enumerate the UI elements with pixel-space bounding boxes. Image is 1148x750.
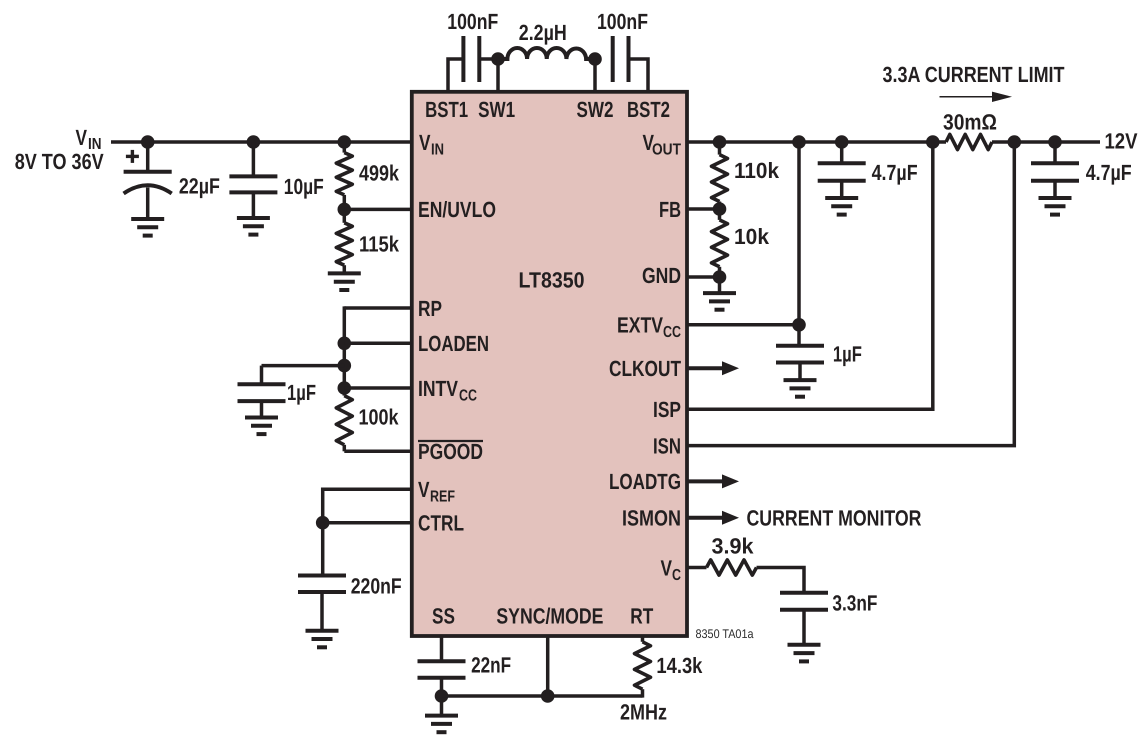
node bus-INTVCC junction xyxy=(338,381,352,395)
svg-text:SW2: SW2 xyxy=(577,97,614,122)
svg-text:10k: 10k xyxy=(734,224,770,249)
ground under C10 xyxy=(784,378,817,382)
inductor L1 2.2uH xyxy=(498,48,595,59)
node CTRL junction xyxy=(316,516,330,530)
node FB junction xyxy=(713,202,727,216)
node C9 junction xyxy=(1048,135,1062,149)
wire R5-R6 link xyxy=(718,202,722,220)
ground under C9 xyxy=(1039,196,1072,200)
wire SW2 pin stub xyxy=(593,59,597,92)
svg-text:2MHz: 2MHz xyxy=(620,700,667,725)
wire INTVCC pin xyxy=(344,386,412,390)
wire RP pin xyxy=(344,306,412,310)
svg-text:1µF: 1µF xyxy=(287,380,316,405)
resistor R2 115k xyxy=(336,223,352,265)
wire SW1 pin stub xyxy=(496,59,500,92)
svg-text:SS: SS xyxy=(432,604,455,629)
svg-text:ISN: ISN xyxy=(653,433,681,458)
svg-text:V: V xyxy=(419,130,431,155)
node SS-gnd junction xyxy=(435,689,449,703)
capacitor C8 4.7uF leads+plates xyxy=(840,142,844,163)
svg-text:3.3nF: 3.3nF xyxy=(832,591,877,616)
wire R5 top lead xyxy=(718,142,722,155)
current limit arrow xyxy=(940,96,995,98)
svg-text:V: V xyxy=(418,477,430,502)
wire LOADEN pin xyxy=(344,342,412,346)
resistor R3 100k xyxy=(336,396,352,445)
svg-text:22nF: 22nF xyxy=(471,652,511,677)
node SW1 junction xyxy=(491,52,505,66)
svg-text:2.2µH: 2.2µH xyxy=(519,20,567,45)
LOADTG output arrow xyxy=(687,479,723,483)
wire ISP pin+riser xyxy=(687,142,933,409)
svg-text:REF: REF xyxy=(430,489,455,506)
wire output rail VOUT right segment xyxy=(992,140,1100,144)
wire BST2 riser xyxy=(629,59,649,92)
wire C11 bottom lead xyxy=(802,610,806,645)
svg-text:LT8350: LT8350 xyxy=(519,268,585,293)
ISMON output arrow xyxy=(687,516,723,520)
svg-text:C: C xyxy=(672,567,681,584)
svg-text:10µF: 10µF xyxy=(284,174,324,199)
wire R4 bottom lead xyxy=(641,689,645,697)
capacitor C4 10uF plates xyxy=(229,174,277,178)
ground under C6 xyxy=(306,629,339,633)
capacitor C7 22nF plates xyxy=(418,659,466,663)
capacitor C11 3.3nF plates xyxy=(780,591,828,595)
svg-text:LOADEN: LOADEN xyxy=(418,331,489,356)
wire VREF pin xyxy=(323,489,412,522)
wire VC pin lead xyxy=(687,566,707,570)
svg-text:4.7µF: 4.7µF xyxy=(1086,160,1132,185)
node VOUT-EXTVCC riser junction xyxy=(792,135,806,149)
svg-text:OUT: OUT xyxy=(652,142,681,159)
capacitor C4 10uF leads xyxy=(252,142,256,176)
svg-text:14.3k: 14.3k xyxy=(656,653,703,678)
wire R3 to PGOOD xyxy=(343,445,347,452)
svg-text:1µF: 1µF xyxy=(833,342,862,367)
svg-text:BST2: BST2 xyxy=(627,97,670,122)
svg-text:499k: 499k xyxy=(359,161,400,186)
wire R1 top lead xyxy=(343,142,347,153)
svg-text:ISP: ISP xyxy=(653,397,681,422)
svg-text:CC: CC xyxy=(459,387,477,404)
svg-text:SW1: SW1 xyxy=(478,97,515,122)
svg-text:30mΩ: 30mΩ xyxy=(943,110,997,135)
wire RT pin lead xyxy=(641,636,645,642)
svg-text:PGOOD: PGOOD xyxy=(418,439,483,464)
svg-text:220nF: 220nF xyxy=(351,573,402,598)
resistor R7 30mΩ shunt xyxy=(946,134,992,149)
wire BST1 riser xyxy=(448,59,463,92)
node input-C4 junction xyxy=(247,135,261,149)
svg-text:GND: GND xyxy=(642,263,681,288)
svg-text:100nF: 100nF xyxy=(597,9,648,34)
resistor R5 110k xyxy=(712,155,728,202)
svg-text:8V TO 36V: 8V TO 36V xyxy=(15,149,104,174)
capacitor C9 4.7uF leads+plates xyxy=(1053,142,1057,163)
capacitor C10 1uF lead+plates xyxy=(797,325,801,346)
ground under C11 xyxy=(788,643,821,647)
svg-text:EXTV: EXTV xyxy=(617,313,663,338)
wire C1 to node SW1 xyxy=(479,57,498,61)
svg-text:BST1: BST1 xyxy=(425,97,468,122)
wire C5 tap horizontal xyxy=(262,364,345,368)
svg-text:12V: 12V xyxy=(1105,129,1138,154)
svg-text:CTRL: CTRL xyxy=(418,511,464,536)
wire GND pin xyxy=(687,275,720,279)
node SYNC/MODE junction xyxy=(541,689,555,703)
ground under C8 xyxy=(825,196,858,200)
wire ISN pin+riser xyxy=(687,142,1014,446)
node input-R1 junction xyxy=(338,135,352,149)
ground under R2 xyxy=(328,271,361,275)
wire R2 bottom lead xyxy=(343,265,347,273)
wire EXTVCC pin xyxy=(687,323,799,327)
C3 top plate xyxy=(124,170,172,174)
wire bottom rail xyxy=(442,694,643,698)
node bus-C5 tap junction xyxy=(338,359,352,373)
wire R6 bottom lead xyxy=(718,267,722,293)
wire FB pin xyxy=(687,207,720,211)
wire left bus vertical xyxy=(343,306,347,395)
wire R1-R2 link xyxy=(343,195,347,223)
svg-text:3.9k: 3.9k xyxy=(712,534,755,559)
svg-text:3.3A CURRENT LIMIT: 3.3A CURRENT LIMIT xyxy=(883,62,1065,87)
capacitor C5 1uF lead+plates xyxy=(260,366,264,385)
wire input rail VIN xyxy=(111,140,412,144)
ground under R6 xyxy=(703,291,736,295)
svg-text:V: V xyxy=(661,555,673,580)
node shunt right junction xyxy=(1008,135,1022,149)
ground under C7 xyxy=(425,714,458,718)
wire EXTVCC riser xyxy=(797,142,801,325)
node shunt left junction xyxy=(926,135,940,149)
CLKOUT output arrow xyxy=(687,366,723,370)
svg-text:110k: 110k xyxy=(734,158,780,183)
ground under C3 xyxy=(131,217,164,221)
node EN/UVLO junction xyxy=(338,203,352,217)
wire CTRL pin xyxy=(323,521,412,525)
svg-text:EN/UVLO: EN/UVLO xyxy=(418,197,496,222)
svg-text:CC: CC xyxy=(663,324,681,341)
svg-text:FB: FB xyxy=(659,197,681,222)
resistor R6 10k xyxy=(712,220,728,267)
C3 plus sign xyxy=(126,155,139,158)
svg-text:RT: RT xyxy=(630,604,653,629)
svg-text:IN: IN xyxy=(431,141,444,158)
resistor R1 499k xyxy=(336,153,352,195)
C3 bottom lead xyxy=(146,188,150,220)
node SW2 junction xyxy=(588,52,602,66)
wire C7 bottom lead xyxy=(440,678,444,716)
node VOUT-R5 junction xyxy=(713,135,727,149)
svg-text:8350 TA01a: 8350 TA01a xyxy=(696,627,754,641)
svg-text:4.7µF: 4.7µF xyxy=(872,160,918,185)
svg-text:RP: RP xyxy=(418,296,442,321)
node EXTVCC junction xyxy=(792,318,806,332)
wire output rail VOUT left segment xyxy=(687,140,946,144)
ground under C4 xyxy=(237,216,270,220)
svg-text:100k: 100k xyxy=(359,405,400,430)
svg-text:CLKOUT: CLKOUT xyxy=(609,356,681,381)
svg-text:22µF: 22µF xyxy=(179,174,220,199)
capacitor C6 220nF lead+plates xyxy=(321,523,325,576)
C3 curved bottom plate xyxy=(124,185,172,193)
wire R8 to C11 xyxy=(757,568,805,593)
capacitor C2 100nF (SW2-BST2) plates xyxy=(611,36,615,82)
svg-text:SYNC/MODE: SYNC/MODE xyxy=(496,604,603,629)
svg-text:V: V xyxy=(76,125,88,150)
svg-text:LOADTG: LOADTG xyxy=(609,469,681,494)
svg-text:115k: 115k xyxy=(359,232,400,257)
resistor R4 14.3k xyxy=(635,642,651,689)
ground under C5 xyxy=(245,416,278,420)
svg-text:ISMON: ISMON xyxy=(622,506,681,531)
resistor R8 3.9k xyxy=(707,560,757,575)
capacitor C1 100nF (BST1-SW1) plates xyxy=(461,36,465,82)
node GND junction xyxy=(713,270,727,284)
capacitor C3 22uF polarized lead xyxy=(146,142,150,172)
node input-C3 junction xyxy=(141,135,155,149)
wire EN/UVLO pin xyxy=(344,208,412,212)
node bus-LOADEN junction xyxy=(338,337,352,351)
node VOUT-C8 junction xyxy=(835,135,849,149)
svg-text:INTV: INTV xyxy=(418,376,458,401)
wire SS pin lead xyxy=(440,636,444,661)
svg-text:CURRENT MONITOR: CURRENT MONITOR xyxy=(747,506,922,531)
IC U1 LT8350 body xyxy=(412,92,687,636)
wire SYNC/MODE pin lead xyxy=(546,636,550,696)
svg-text:100nF: 100nF xyxy=(447,9,498,34)
